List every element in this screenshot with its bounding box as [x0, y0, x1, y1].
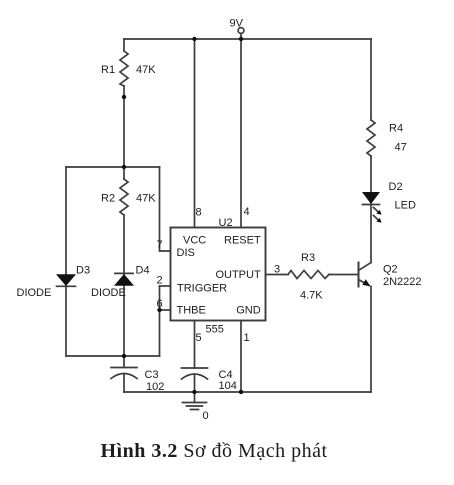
svg-text:Hình 3.2 Sơ đồ Mạch phát: Hình 3.2 Sơ đồ Mạch phát — [101, 440, 328, 462]
svg-text:47K: 47K — [136, 64, 156, 76]
svg-text:U2: U2 — [219, 217, 233, 229]
svg-text:DIS: DIS — [177, 247, 195, 259]
svg-text:DIODE: DIODE — [91, 287, 126, 299]
svg-text:6: 6 — [157, 298, 163, 310]
svg-text:D2: D2 — [389, 181, 403, 193]
svg-text:5: 5 — [196, 332, 202, 344]
svg-text:3: 3 — [274, 264, 280, 276]
svg-text:THBE: THBE — [177, 304, 206, 316]
svg-text:DIODE: DIODE — [17, 287, 52, 299]
svg-text:104: 104 — [219, 380, 237, 392]
svg-text:2: 2 — [157, 275, 163, 287]
svg-text:C3: C3 — [145, 369, 159, 381]
svg-text:OUTPUT: OUTPUT — [215, 269, 261, 281]
svg-text:D4: D4 — [136, 265, 150, 277]
svg-text:R2: R2 — [101, 193, 115, 205]
svg-text:D3: D3 — [76, 265, 90, 277]
svg-text:47K: 47K — [136, 193, 156, 205]
svg-text:1: 1 — [244, 332, 250, 344]
svg-text:9V: 9V — [230, 18, 244, 30]
svg-text:R1: R1 — [101, 64, 115, 76]
svg-text:VCC: VCC — [183, 234, 206, 246]
svg-text:RESET: RESET — [224, 234, 261, 246]
svg-text:GND: GND — [236, 304, 261, 316]
svg-text:7: 7 — [157, 239, 163, 251]
svg-text:LED: LED — [395, 200, 416, 212]
svg-text:R4: R4 — [389, 123, 403, 135]
svg-text:TRIGGER: TRIGGER — [177, 283, 227, 295]
svg-text:4.7K: 4.7K — [300, 290, 323, 302]
svg-text:2N2222: 2N2222 — [383, 276, 422, 288]
svg-text:555: 555 — [206, 324, 224, 336]
svg-text:Q2: Q2 — [383, 264, 398, 276]
svg-text:102: 102 — [146, 381, 164, 393]
svg-text:8: 8 — [196, 207, 202, 219]
svg-text:0: 0 — [203, 410, 209, 422]
svg-text:R3: R3 — [301, 252, 315, 264]
svg-text:4: 4 — [244, 206, 250, 218]
svg-text:47: 47 — [395, 142, 407, 154]
